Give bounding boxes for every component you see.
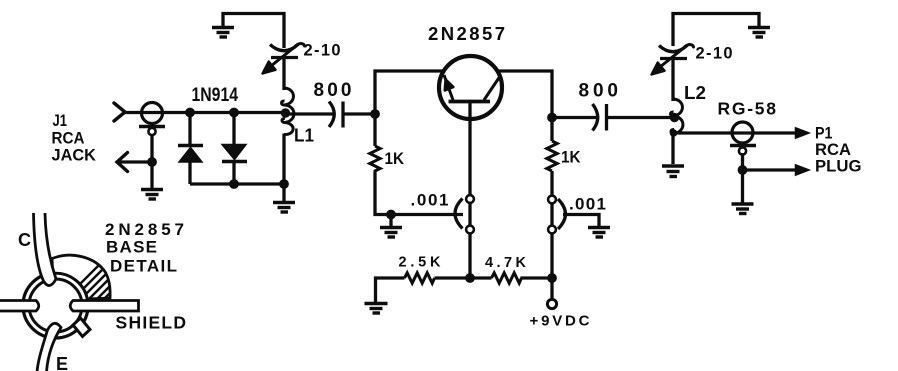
base detail lead C (top tube) [34, 213, 57, 286]
node junction J1 shield [147, 157, 157, 167]
inductor L2 [671, 99, 683, 134]
label J1 RCA JACK [52, 112, 97, 165]
svg-text:1N914: 1N914 [192, 85, 239, 106]
node J1 shield arrow (to chassis) [117, 153, 152, 172]
capacitor 800 (right) [593, 104, 607, 131]
wire signal line J1 to L1 tap [142, 111, 284, 114]
svg-text:E: E [56, 354, 68, 371]
svg-text:1K: 1K [385, 149, 405, 168]
svg-text:800: 800 [579, 81, 619, 102]
node junction emitter riser [370, 109, 380, 119]
wire J1 shield drop [150, 134, 153, 162]
ground below L2 [662, 166, 684, 177]
svg-text:2.5K: 2.5K [399, 255, 442, 271]
wire bias rail [376, 278, 553, 302]
inductor L1 [282, 88, 294, 135]
capacitor .001 feedthrough (right) plate [558, 199, 566, 229]
wire trimmer to L2 [671, 59, 674, 102]
base detail index notch [73, 318, 90, 337]
wire 1K left bottom to .001 node [375, 172, 463, 215]
svg-text:2-10: 2-10 [304, 42, 341, 60]
wire L1 tap to C 800 [285, 112, 335, 115]
wire trimmer to L1 [282, 58, 285, 91]
wire top of tank 2 [673, 14, 759, 47]
svg-text:SHIELD: SHIELD [116, 313, 187, 333]
transistor base detail: outer can ring [23, 273, 88, 338]
svg-text:RCA: RCA [52, 130, 85, 148]
base detail lead B (left tube) [0, 301, 39, 312]
wire base lead down to bias rail [468, 103, 471, 278]
base detail lead E (bottom tube) [37, 323, 61, 371]
node junction diode rail at D2 [229, 179, 239, 189]
wire top of tank 1 [282, 12, 285, 48]
svg-text:J1: J1 [53, 112, 68, 130]
svg-text:L1: L1 [294, 126, 314, 146]
wire L2 to P1 [673, 131, 797, 134]
svg-text:4.7K: 4.7K [485, 255, 527, 271]
capacitor .001 feedthrough beads (left) [466, 195, 474, 233]
svg-text:2-10: 2-10 [696, 45, 733, 63]
connector P1 RCA plug body [730, 122, 756, 155]
svg-text:JACK: JACK [52, 147, 97, 165]
resistor 1K (left) [370, 146, 380, 172]
wire 1K right to +9 rail [550, 171, 553, 278]
wire P1 shield drop [741, 153, 744, 170]
node junction L2 output tap [670, 129, 678, 137]
wire P1 shield to arrow [743, 168, 798, 171]
label 2N2857 BASE DETAIL [105, 220, 184, 276]
wire top-left to ground [222, 12, 286, 15]
node junction diode D2 top [229, 108, 239, 118]
node +9VDC terminal [547, 278, 556, 309]
svg-text:DETAIL: DETAIL [110, 257, 177, 276]
svg-text:.001: .001 [411, 191, 449, 210]
wire diode bottom rail [190, 182, 284, 185]
resistor 2.5K [405, 273, 435, 283]
node P1 center arrow [796, 128, 810, 138]
ground at right .001 [588, 228, 610, 238]
svg-text:P1: P1 [815, 125, 833, 143]
capacitor trimmer 2-10 (right) [652, 45, 694, 75]
wire C800 to emitter riser [343, 112, 375, 115]
diode D1 1N914 (cathode up) [178, 113, 203, 185]
base detail lead SHIELD (right tube) [70, 301, 138, 312]
label P1 RCA PLUG [815, 125, 862, 176]
node junction L2 tap [670, 113, 679, 122]
node junction +9VDC [547, 273, 557, 283]
diode D2 1N914 (cathode down) [222, 113, 247, 185]
node J1 input fork [114, 103, 142, 121]
capacitor .001 feedthrough beads (right) [548, 196, 556, 234]
svg-text:1K: 1K [561, 148, 581, 167]
ground below L1 [273, 184, 295, 212]
node junction diode D1 top [185, 108, 195, 118]
transistor base detail: inner can ring [29, 279, 82, 332]
ground top-left [212, 12, 234, 37]
svg-text:C: C [18, 230, 31, 250]
node junction L1 tap [281, 108, 290, 117]
wire collector node to C800 right [552, 116, 598, 119]
wire L2 bottom to ground [671, 133, 674, 164]
svg-text:.001: .001 [569, 195, 606, 214]
node P1 shield arrow [796, 165, 810, 175]
node junction diode rail at L1 [279, 179, 289, 189]
transistor Q1 2N2857 [439, 56, 502, 119]
capacitor 800 (left) [329, 102, 343, 128]
ground at J1 [141, 162, 163, 199]
wire C800 right to L2 [607, 116, 674, 119]
ground top-right [748, 28, 770, 38]
capacitor trimmer 2-10 (left) [263, 44, 305, 74]
node junction base bias [465, 273, 475, 283]
node junction collector riser [547, 113, 557, 123]
ground at left .001 [380, 215, 402, 238]
node junction P1 shield [738, 165, 748, 175]
resistor 4.7K [492, 273, 522, 283]
ground below P1 [732, 170, 754, 214]
node junction .001 left ground [386, 210, 396, 220]
wire L1 to diode rail ground [282, 134, 285, 185]
svg-text:RCA: RCA [815, 141, 851, 159]
wire right .001 to ground [563, 215, 599, 227]
capacitor .001 feedthrough (left) plate [455, 199, 463, 229]
svg-text:RG-58: RG-58 [718, 99, 777, 119]
svg-text:PLUG: PLUG [815, 158, 862, 176]
wire collector to right riser [496, 71, 552, 141]
ground at rail left [365, 304, 388, 314]
resistor 1K (right) [547, 141, 557, 171]
svg-text:800: 800 [314, 80, 352, 101]
svg-text:BASE: BASE [106, 238, 157, 257]
connector J1 RCA jack body [139, 103, 165, 136]
wire emitter riser up [375, 71, 446, 146]
svg-text:L2: L2 [684, 83, 706, 103]
